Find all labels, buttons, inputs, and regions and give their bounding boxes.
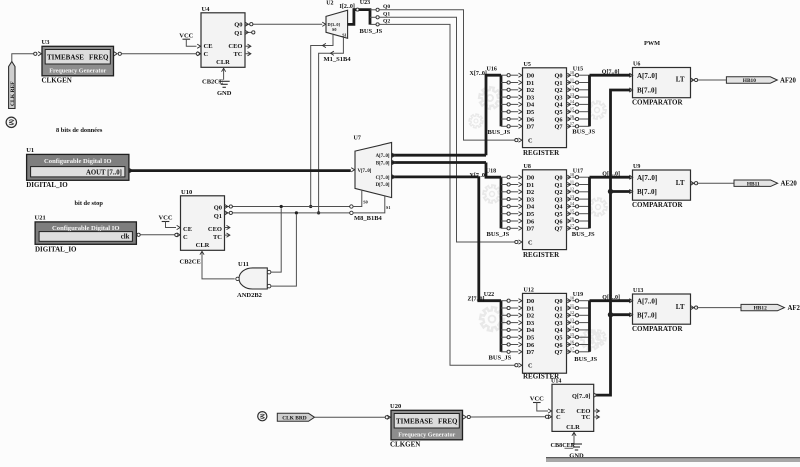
power VCC for U10.CE: [158, 215, 180, 230]
svg-text:DIGITAL_IO: DIGITAL_IO: [35, 246, 77, 254]
svg-text:COMPARATOR: COMPARATOR: [632, 99, 683, 107]
svg-text:C: C: [528, 363, 533, 370]
bus Q[7..0] from U19 to U13.A: [590, 299, 631, 302]
svg-text:12: 12: [570, 187, 574, 192]
pin U4.Q1 stub: [245, 30, 255, 34]
svg-text:C: C: [556, 414, 561, 421]
svg-text:CE: CE: [204, 43, 213, 50]
svg-text:S1: S1: [342, 33, 346, 38]
pin U14.CEO stub: [594, 409, 600, 413]
symbol name CB2CE of U10: [180, 258, 201, 265]
svg-text:U5: U5: [524, 62, 531, 68]
svg-text:VCC: VCC: [179, 32, 193, 39]
svg-text:CLK REF: CLK REF: [10, 81, 16, 106]
net label Q1: [383, 12, 390, 18]
mux U2 M1_S1B4: [324, 0, 352, 63]
svg-text:CLR: CLR: [216, 59, 230, 66]
svg-text:Q0: Q0: [234, 22, 242, 29]
wire Q0 from U23 to U5.C: [379, 10, 522, 142]
svg-text:Q2: Q2: [554, 87, 562, 94]
svg-text:GND: GND: [217, 90, 232, 97]
svg-text:Q2: Q2: [554, 313, 562, 320]
bus C[7..0] from U7 to splitter U22: [392, 175, 479, 179]
svg-text:V[7..0]: V[7..0]: [358, 169, 372, 174]
svg-text:11: 11: [570, 77, 574, 82]
svg-text:LT: LT: [676, 303, 685, 311]
svg-text:HB11: HB11: [747, 181, 760, 187]
svg-text:AOUT [7..0]: AOUT [7..0]: [86, 169, 122, 176]
svg-text:CB2CE: CB2CE: [180, 258, 201, 265]
bus splitter U19 BUS_JS: [567, 292, 620, 363]
svg-text:12: 12: [570, 310, 574, 315]
svg-text:B[7..0]: B[7..0]: [637, 188, 657, 196]
pad label AF21: [788, 305, 800, 312]
svg-text:Q1: Q1: [234, 30, 242, 37]
output connector HB12: [741, 304, 784, 311]
svg-text:13: 13: [570, 194, 574, 199]
svg-text:U6: U6: [633, 62, 640, 68]
bus U14.Q to comparator B inputs: [594, 90, 631, 397]
power VCC for U4.CE: [179, 32, 200, 48]
wire U10.Q1 to AND/S1 net: [225, 196, 385, 215]
svg-text:U3: U3: [42, 39, 51, 46]
svg-text:Configurable Digital IO: Configurable Digital IO: [52, 225, 119, 232]
svg-text:D0: D0: [527, 175, 535, 182]
svg-text:Q6: Q6: [554, 342, 562, 349]
svg-text:D5: D5: [527, 109, 535, 116]
svg-text:12: 12: [570, 85, 574, 90]
pin U14.TC stub: [594, 415, 600, 419]
pad label AE20: [781, 181, 798, 188]
comparator U13: [629, 288, 697, 333]
svg-text:TC: TC: [581, 414, 590, 421]
svg-text:U9: U9: [633, 164, 640, 170]
svg-text:TIMEBASE: TIMEBASE: [47, 54, 84, 62]
svg-text:D3: D3: [527, 320, 535, 327]
svg-text:S0: S0: [332, 27, 336, 32]
svg-text:U13: U13: [633, 288, 643, 294]
svg-text:D7: D7: [527, 226, 535, 233]
svg-text:D3: D3: [527, 196, 535, 203]
svg-text:D1: D1: [527, 182, 535, 189]
svg-text:D5: D5: [527, 335, 535, 342]
svg-text:Q5: Q5: [554, 211, 562, 218]
svg-text:Q0: Q0: [554, 298, 562, 305]
svg-text:M1_S1B4: M1_S1B4: [324, 56, 352, 63]
svg-text:Q6: Q6: [554, 116, 562, 123]
frequency generator U20: [390, 403, 463, 448]
svg-text:clk: clk: [121, 234, 130, 241]
input connector CLK_REF: [9, 62, 16, 109]
svg-text:A[7..0]: A[7..0]: [637, 174, 657, 182]
svg-text:U14: U14: [551, 378, 561, 384]
svg-text:Z[7..0]: Z[7..0]: [468, 297, 485, 303]
svg-text:REGISTER: REGISTER: [523, 251, 560, 259]
wire U20.FREQ to U14.C: [463, 415, 552, 419]
svg-text:Q7: Q7: [554, 124, 562, 131]
svg-text:D2: D2: [527, 189, 535, 196]
svg-text:Q[7..0]: Q[7..0]: [572, 393, 591, 400]
svg-text:CLKGEN: CLKGEN: [390, 440, 420, 448]
svg-text:A[7..0]: A[7..0]: [376, 154, 390, 159]
svg-text:D4: D4: [527, 204, 536, 211]
power VCC for U14.CE: [530, 396, 552, 413]
pad label AF20: [780, 77, 796, 84]
bus splitter U18 BUS_JS: [470, 163, 522, 239]
svg-text:Q1: Q1: [383, 12, 390, 18]
svg-text:8 bits de données: 8 bits de données: [56, 127, 103, 134]
svg-text:U10: U10: [181, 189, 192, 196]
svg-text:Q2: Q2: [383, 19, 390, 25]
svg-text:U20: U20: [390, 403, 401, 410]
analog resource icon PE1: [6, 117, 16, 127]
svg-text:CLK BRD: CLK BRD: [282, 416, 307, 422]
svg-text:U1: U1: [26, 147, 34, 154]
svg-text:HB12: HB12: [754, 306, 767, 312]
svg-text:Q4: Q4: [554, 327, 563, 334]
bus splitter U23 BUS_JS: [360, 0, 383, 35]
bus splitter U16 BUS_JS: [470, 67, 522, 156]
svg-text:11: 11: [570, 179, 574, 184]
svg-text:D1: D1: [527, 305, 535, 312]
svg-text:CLR: CLR: [196, 242, 210, 249]
symbol name CB8CER of U14: [551, 442, 576, 449]
wire U3.FREQ to U4.C: [114, 52, 201, 56]
svg-text:B[7..0]: B[7..0]: [637, 311, 657, 319]
svg-text:Configurable Digital IO: Configurable Digital IO: [44, 158, 111, 165]
svg-text:D0: D0: [527, 298, 535, 305]
svg-text:D[7..0]: D[7..0]: [376, 183, 390, 188]
bus Q[7..0] from U15 to U6.A: [590, 74, 631, 77]
pin U14.CLR to ground: [572, 431, 576, 443]
wire U11 input2 from Q1 net: [271, 215, 297, 287]
svg-text:Q0: Q0: [554, 73, 562, 80]
svg-text:Q4: Q4: [554, 102, 563, 109]
svg-text:U4: U4: [202, 6, 211, 13]
wire U6.LT to HB10: [697, 79, 727, 81]
svg-text:D4: D4: [527, 327, 536, 334]
pin U10.CEO stub: [225, 225, 230, 229]
net label Q0: [383, 4, 390, 10]
svg-text:VCC: VCC: [530, 396, 544, 403]
svg-text:BUS_JS: BUS_JS: [488, 129, 511, 136]
note: bit de stop: [75, 200, 104, 207]
svg-text:Q1: Q1: [214, 213, 222, 220]
svg-text:D6: D6: [527, 116, 535, 123]
svg-text:13: 13: [570, 317, 574, 322]
wire U11 input1 from Q0 net: [271, 208, 281, 272]
analog resource icon PE2: [258, 412, 267, 421]
svg-text:S1: S1: [386, 205, 390, 210]
net label Q2: [383, 19, 390, 25]
svg-text:11: 11: [570, 303, 574, 308]
svg-text:TC: TC: [213, 234, 222, 241]
configurable digital IO U1: [26, 147, 129, 189]
svg-text:D2: D2: [527, 87, 535, 94]
svg-text:TC: TC: [233, 51, 242, 58]
svg-text:A[7..0]: A[7..0]: [637, 297, 657, 305]
svg-text:U23: U23: [360, 0, 370, 6]
bus B[7..0] from U7 to splitter U18: [392, 160, 486, 164]
svg-text:U11: U11: [238, 261, 249, 268]
svg-text:FREQ: FREQ: [89, 54, 109, 62]
svg-text:COMPARATOR: COMPARATOR: [632, 325, 683, 333]
svg-text:CEO: CEO: [208, 226, 222, 233]
svg-text:U7: U7: [354, 136, 361, 142]
svg-text:U12: U12: [524, 288, 534, 294]
svg-text:U19: U19: [573, 292, 583, 298]
title block edge: [546, 457, 800, 462]
svg-text:Q7: Q7: [554, 226, 562, 233]
svg-text:S0: S0: [363, 200, 367, 205]
svg-text:COMPARATOR: COMPARATOR: [632, 201, 683, 209]
svg-text:D3: D3: [527, 94, 535, 101]
svg-text:DIGITAL_IO: DIGITAL_IO: [26, 181, 68, 189]
svg-text:M8_B1B4: M8_B1B4: [354, 215, 383, 222]
svg-text:CE: CE: [183, 226, 192, 233]
svg-text:PWM: PWM: [644, 40, 660, 47]
svg-text:U18: U18: [486, 169, 496, 175]
svg-text:FREQ: FREQ: [438, 418, 458, 426]
configurable digital IO U21: [35, 215, 137, 254]
comparator U6: [629, 62, 697, 107]
bus A[7..0] from U7 to splitter U16: [392, 153, 486, 157]
svg-text:C: C: [204, 51, 209, 58]
svg-text:D4: D4: [527, 102, 536, 109]
svg-text:X[7..0]: X[7..0]: [470, 71, 487, 77]
svg-text:Q0: Q0: [383, 4, 390, 10]
svg-text:BUS_JS: BUS_JS: [487, 231, 510, 238]
svg-text:Q3: Q3: [554, 196, 562, 203]
svg-text:U22: U22: [484, 292, 494, 298]
bus splitter U17 BUS_JS: [567, 168, 620, 238]
svg-text:BUS_JS: BUS_JS: [572, 129, 595, 136]
svg-text:BUS_JS: BUS_JS: [572, 231, 595, 238]
bus splitter U15 BUS_JS: [567, 66, 620, 135]
comparator U9: [629, 164, 697, 209]
svg-text:D7: D7: [527, 124, 535, 131]
bus U2 output to U23: [348, 8, 370, 25]
svg-text:15: 15: [570, 209, 574, 214]
pin U4.CLR to ground: [221, 67, 225, 80]
svg-text:Q7: Q7: [554, 349, 562, 356]
svg-text:D6: D6: [527, 218, 535, 225]
svg-text:15: 15: [570, 107, 574, 112]
wire U2.S0 select net: [309, 34, 333, 208]
svg-text:REGISTER: REGISTER: [523, 149, 560, 157]
symbol name CB2CE of U4: [202, 78, 223, 85]
svg-text:Q5: Q5: [554, 335, 562, 342]
svg-text:Q2: Q2: [554, 189, 562, 196]
svg-text:D1: D1: [527, 80, 535, 87]
svg-text:D7: D7: [527, 349, 535, 356]
wire CLK_BRD to U20.TIMEBASE: [315, 415, 391, 419]
pin U4.TC stub: [245, 52, 251, 56]
output connector HB11: [734, 180, 778, 187]
wire U4.Q0 to U2.D input: [245, 22, 326, 26]
counter U10 CB2CE: [181, 189, 225, 250]
svg-text:Q6: Q6: [554, 218, 562, 225]
svg-text:BUS_JS: BUS_JS: [489, 354, 512, 361]
svg-text:13: 13: [570, 92, 574, 97]
wire Q2 from U23 to U12.C: [379, 24, 522, 367]
svg-text:BUS_JS: BUS_JS: [360, 28, 383, 35]
register U12: [523, 288, 567, 381]
svg-text:A[7..0]: A[7..0]: [637, 72, 657, 80]
svg-text:Q1: Q1: [554, 305, 562, 312]
pin U4.CEO stub: [245, 44, 251, 48]
svg-text:B[7..0]: B[7..0]: [376, 161, 390, 166]
pin U10.TC stub: [225, 233, 230, 237]
wire U21.clk to U10.C: [137, 233, 180, 237]
svg-text:U8: U8: [524, 164, 531, 170]
svg-text:C[7..0]: C[7..0]: [376, 176, 390, 181]
svg-text:Q0: Q0: [554, 175, 562, 182]
svg-text:LT: LT: [676, 179, 685, 187]
frequency generator U3: [42, 39, 114, 84]
bus splitter U22 BUS_JS: [468, 177, 522, 362]
svg-text:Frequency Generator: Frequency Generator: [49, 68, 106, 75]
svg-text:VCC: VCC: [158, 215, 172, 222]
svg-text:U15: U15: [573, 66, 583, 72]
svg-text:U16: U16: [487, 67, 497, 73]
net label I[2..0]: [340, 4, 355, 10]
svg-text:Q4: Q4: [554, 204, 563, 211]
wire U10.Q0 to AND/S0 net: [225, 191, 362, 209]
wire U13.LT to HB12: [697, 307, 741, 309]
svg-text:CLKGEN: CLKGEN: [42, 77, 72, 85]
output connector HB10: [726, 77, 777, 84]
ground GND below U14: [569, 444, 584, 460]
svg-text:CEO: CEO: [228, 43, 242, 50]
register U5: [523, 62, 567, 157]
svg-text:U21: U21: [35, 215, 46, 222]
svg-text:Frequency Generator: Frequency Generator: [398, 432, 455, 439]
svg-text:C: C: [528, 137, 533, 144]
wire U10.CLR from U11 output: [200, 250, 235, 279]
svg-text:Q0: Q0: [214, 205, 222, 212]
svg-text:B[7..0]: B[7..0]: [637, 87, 657, 95]
svg-text:Q1: Q1: [554, 182, 562, 189]
svg-text:bit de stop: bit de stop: [75, 200, 104, 207]
svg-text:D5: D5: [527, 211, 535, 218]
counter U14 CB8CER: [551, 378, 594, 431]
svg-text:HB10: HB10: [743, 78, 756, 84]
svg-text:C: C: [528, 239, 533, 246]
wire Q1 from U23 to U8.C: [379, 17, 522, 244]
svg-text:U2: U2: [326, 0, 333, 6]
svg-text:D0: D0: [527, 73, 535, 80]
demux U7 M8_B1B4: [354, 136, 392, 223]
note PWM: [644, 40, 660, 47]
note: 8 bits de donnees: [56, 127, 103, 134]
wire CLK_REF to U3.TIMEBASE: [12, 52, 42, 62]
and gate U11 AND2B2: [236, 261, 271, 299]
svg-text:LT: LT: [676, 76, 685, 84]
svg-text:Q1: Q1: [554, 80, 562, 87]
svg-text:U17: U17: [573, 168, 583, 174]
svg-text:CB8CER: CB8CER: [551, 442, 576, 449]
bus U1.AOUT to U7.V: [129, 168, 355, 173]
svg-text:CLR: CLR: [566, 424, 580, 431]
counter U4 CB2CE: [201, 6, 245, 67]
svg-text:15: 15: [570, 332, 574, 337]
svg-text:Q3: Q3: [554, 94, 562, 101]
svg-text:BUS_JS: BUS_JS: [574, 356, 597, 363]
svg-text:D6: D6: [527, 342, 535, 349]
svg-text:TIMEBASE: TIMEBASE: [396, 418, 433, 426]
svg-text:AE20: AE20: [781, 181, 798, 188]
svg-text:AF20: AF20: [780, 77, 796, 84]
register U8: [523, 164, 567, 259]
svg-text:C: C: [183, 234, 188, 241]
bus Q[7..0] from U17 to U9.A: [590, 176, 631, 179]
svg-text:Q3: Q3: [554, 320, 562, 327]
svg-text:AND2B2: AND2B2: [237, 292, 262, 299]
wire U9.LT to HB11: [697, 182, 734, 184]
wire U2.S1 select net: [317, 37, 343, 214]
svg-text:D2: D2: [527, 313, 535, 320]
ground GND below U4: [217, 81, 232, 97]
svg-text:AF21: AF21: [788, 305, 800, 312]
input connector CLK_BRD: [277, 413, 314, 421]
svg-text:Q5: Q5: [554, 109, 562, 116]
